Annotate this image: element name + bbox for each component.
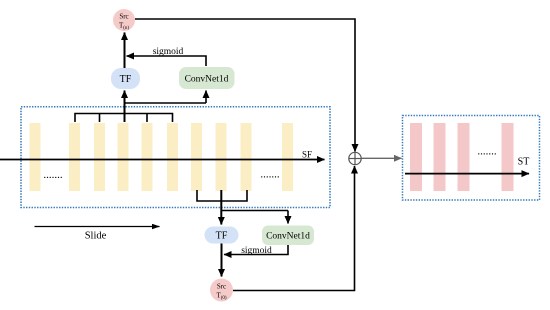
svg-text:ST: ST <box>518 157 530 168</box>
svg-text:ConvNet1d: ConvNet1d <box>185 75 229 85</box>
svg-text:sigmoid: sigmoid <box>153 47 184 57</box>
svg-text:ConvNet1d: ConvNet1d <box>266 232 310 242</box>
svg-text:TF: TF <box>216 231 228 242</box>
svg-text:sigmoid: sigmoid <box>241 246 272 256</box>
svg-text:.......: ....... <box>477 146 497 158</box>
svg-text:.......: ....... <box>260 169 280 181</box>
svg-text:.......: ....... <box>43 169 63 181</box>
svg-text:TF: TF <box>120 74 132 85</box>
svg-text:Slide: Slide <box>85 231 107 242</box>
svg-text:Src: Src <box>119 13 128 21</box>
svg-text:Src: Src <box>217 283 226 291</box>
svg-text:SF: SF <box>302 150 312 160</box>
